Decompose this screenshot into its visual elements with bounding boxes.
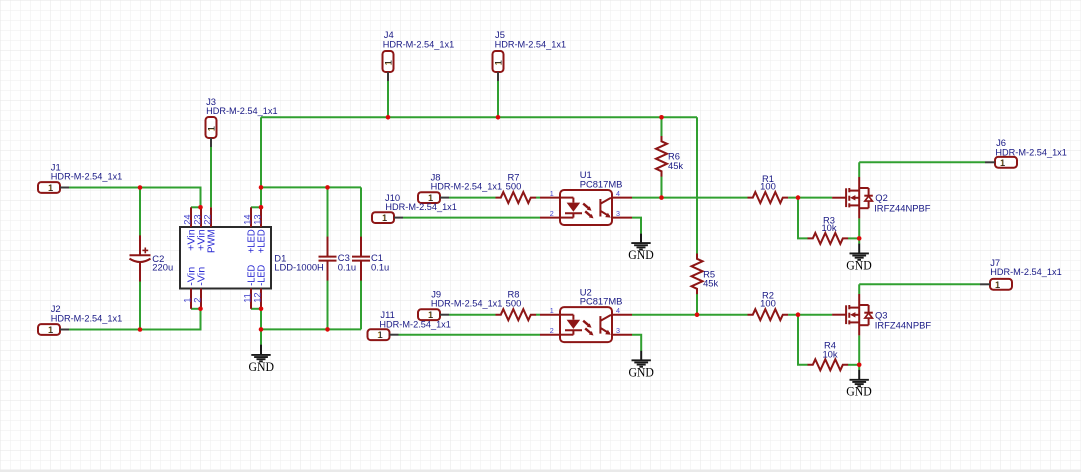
junction J4 bus	[386, 115, 391, 120]
svg-text:GND: GND	[846, 257, 872, 272]
wire bus to R5	[696, 117, 698, 253]
ground U2	[628, 351, 654, 380]
junction R6 out	[659, 195, 664, 200]
wire bus to R6	[661, 117, 663, 136]
svg-text:GND: GND	[628, 364, 654, 379]
transistor Q2	[832, 177, 931, 218]
junction -LED gnd	[259, 327, 264, 332]
wire U1 pin3 to GND	[632, 218, 641, 234]
junction C3 bottom	[325, 327, 330, 332]
svg-text:GND: GND	[846, 384, 872, 399]
wire U2 pin4 to R2	[632, 314, 748, 316]
svg-text:10k: 10k	[822, 349, 837, 360]
svg-text:100: 100	[760, 298, 776, 309]
wire C3 top lead	[327, 187, 329, 237]
ground D1	[249, 345, 275, 374]
wire J3 to D1 PWM	[210, 147, 212, 207]
svg-text:13: 13	[252, 214, 262, 224]
connector J2	[38, 303, 122, 336]
junction pin13	[259, 205, 264, 210]
svg-text:HDR-M-2.54_1x1: HDR-M-2.54_1x1	[379, 319, 451, 330]
junction Q3 source	[857, 363, 862, 368]
wire -LED to GND	[260, 329, 262, 344]
wire J9 to R8	[449, 314, 496, 316]
resistor R8	[496, 289, 537, 321]
wire J1 to D1 +Vin	[69, 188, 201, 208]
svg-text:HDR-M-2.54_1x1: HDR-M-2.54_1x1	[206, 105, 278, 116]
wire gate branch to R4	[798, 315, 808, 365]
resistor R1	[748, 173, 789, 203]
wire R3 to Q2 source	[848, 237, 859, 239]
svg-text:-LED: -LED	[256, 265, 267, 286]
wire C1 top lead	[360, 187, 362, 237]
svg-text:IRFZ44NPBF: IRFZ44NPBF	[875, 320, 932, 331]
junction R1 gate branch	[796, 195, 801, 200]
wire gate branch to R3	[798, 198, 808, 239]
wire C3 bottom lead	[327, 280, 329, 330]
wire R8 to U2 pin1	[536, 314, 540, 316]
svg-text:HDR-M-2.54_1x1: HDR-M-2.54_1x1	[51, 312, 123, 323]
svg-text:100: 100	[760, 181, 776, 192]
wire -LED horizontal to C3 C1	[261, 328, 361, 330]
wire Q3 source to GND	[858, 335, 860, 370]
svg-text:220u: 220u	[152, 261, 173, 272]
connector J7	[980, 257, 1062, 291]
svg-text:HDR-M-2.54_1x1: HDR-M-2.54_1x1	[385, 201, 457, 212]
svg-text:HDR-M-2.54_1x1: HDR-M-2.54_1x1	[431, 181, 503, 192]
connector J6	[985, 137, 1067, 169]
wire bracket pins 14-13	[251, 206, 261, 208]
svg-text:PC817MB: PC817MB	[580, 296, 623, 307]
junction +LED cross	[259, 185, 264, 190]
wire J2 to D1 -Vin	[69, 309, 201, 330]
wire C1 bottom lead	[360, 280, 362, 330]
resistor R4	[808, 339, 849, 370]
svg-text:HDR-M-2.54_1x1: HDR-M-2.54_1x1	[431, 298, 503, 309]
svg-text:HDR-M-2.54_1x1: HDR-M-2.54_1x1	[51, 170, 123, 181]
svg-text:45k: 45k	[668, 160, 683, 171]
svg-text:HDR-M-2.54_1x1: HDR-M-2.54_1x1	[995, 147, 1067, 158]
wire bracket pins 1-2	[191, 308, 201, 310]
connector J3	[206, 96, 278, 147]
svg-text:24: 24	[182, 214, 192, 224]
wire U2 pin3 to GND	[632, 335, 641, 351]
svg-text:500: 500	[506, 298, 522, 309]
ground U1	[628, 234, 654, 263]
capacitor C3	[319, 237, 357, 281]
svg-text:PWM: PWM	[206, 229, 217, 253]
wire J11 to U2 pin2	[399, 334, 541, 336]
wire J5 drop	[497, 81, 499, 117]
junction pin2	[198, 307, 203, 312]
wire +LED vertical from bus	[260, 117, 262, 207]
svg-text:0.1u: 0.1u	[371, 262, 389, 273]
wire J10 to U1 pin2	[403, 217, 540, 219]
wire Q2 drain riser	[858, 162, 860, 177]
svg-text:10k: 10k	[821, 222, 836, 233]
svg-text:12: 12	[252, 292, 262, 302]
svg-text:1: 1	[182, 298, 192, 303]
connector J9	[418, 289, 502, 322]
wire R1 to Q2 gate	[788, 197, 832, 199]
svg-text:-Vin: -Vin	[196, 267, 207, 286]
svg-text:IRFZ44NPBF: IRFZ44NPBF	[874, 202, 931, 213]
connector J1	[38, 161, 122, 194]
connector J11	[368, 309, 451, 341]
wire J8 to R7	[449, 197, 496, 199]
wire Q3 drain riser	[858, 284, 860, 294]
resistor R2	[748, 290, 789, 321]
wire Q3 drain to J7	[859, 283, 980, 285]
optocoupler U1	[540, 169, 632, 225]
svg-text:14: 14	[242, 214, 252, 224]
wire -LED vertical	[260, 309, 262, 330]
optocoupler U2	[540, 286, 632, 342]
transistor Q3	[832, 294, 931, 335]
junction pin12	[259, 307, 264, 312]
wire C2 bottom lead	[139, 281, 141, 330]
ground Q2	[846, 244, 872, 273]
svg-text:500: 500	[506, 181, 522, 192]
wire R6 to U1 out	[661, 176, 663, 197]
svg-text:PC817MB: PC817MB	[580, 178, 623, 189]
svg-text:HDR-M-2.54_1x1: HDR-M-2.54_1x1	[990, 266, 1061, 277]
svg-text:GND: GND	[249, 359, 275, 374]
wire bracket pins 24-23	[191, 206, 201, 208]
wire bracket pins 11-12	[251, 308, 261, 310]
junction pin23	[198, 205, 203, 210]
junction C3 top	[325, 185, 330, 190]
wire R7 to U1 pin1	[536, 197, 540, 199]
svg-text:GND: GND	[628, 247, 654, 262]
wire R4 to Q3 source	[848, 364, 859, 366]
wire top bus	[261, 116, 697, 118]
svg-text:+LED: +LED	[256, 229, 267, 253]
wire U1 pin4 to R1	[632, 197, 748, 199]
connector J8	[418, 172, 502, 205]
svg-text:45k: 45k	[703, 278, 718, 289]
junction C2 top	[138, 185, 143, 190]
svg-text:11: 11	[242, 293, 252, 303]
LED driver module D1	[180, 207, 324, 308]
junction R2 gate branch	[796, 312, 801, 317]
svg-text:HDR-M-2.54_1x1: HDR-M-2.54_1x1	[383, 38, 455, 49]
capacitor C2	[130, 235, 174, 281]
ground Q3	[846, 370, 872, 399]
wire Q2 drain to J6	[859, 161, 985, 163]
resistor R3	[808, 214, 849, 244]
svg-text:2: 2	[192, 298, 202, 303]
resistor R7	[496, 172, 537, 204]
junction R5 out	[695, 312, 700, 317]
svg-text:LDD-1000H: LDD-1000H	[274, 262, 324, 273]
wire J4 drop	[387, 81, 389, 117]
resistor R6	[656, 136, 683, 177]
junction J5 bus	[496, 115, 501, 120]
junction R6 bus	[659, 115, 664, 120]
junction C2 bottom	[138, 327, 143, 332]
svg-text:22: 22	[202, 214, 212, 224]
wire C2 top lead	[139, 188, 141, 237]
junction Q2 source	[857, 236, 862, 241]
svg-text:0.1u: 0.1u	[338, 262, 356, 273]
wire R5 to U2 out	[696, 294, 698, 315]
connector J5	[493, 29, 567, 81]
svg-text:23: 23	[192, 214, 202, 224]
connector J10	[372, 192, 457, 224]
resistor R5	[692, 253, 719, 294]
capacitor C1	[352, 237, 389, 281]
wire R2 to Q3 gate	[788, 314, 832, 316]
svg-text:HDR-M-2.54_1x1: HDR-M-2.54_1x1	[495, 38, 566, 49]
wire +LED horizontal to C3 C1	[261, 186, 361, 188]
wire Q2 source to GND	[858, 218, 860, 243]
connector J4	[383, 29, 455, 81]
